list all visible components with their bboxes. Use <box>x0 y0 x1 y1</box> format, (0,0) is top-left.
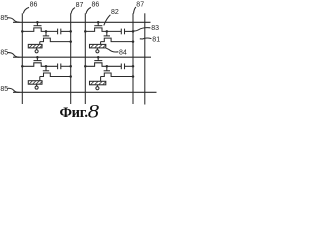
transistor T1 switching TFT (row 1, col 1) <box>22 28 57 32</box>
svg-text:87: 87 <box>76 2 84 9</box>
wire data line 2 (net 86) <box>84 13 86 104</box>
junction dot T1 gate on bus (row 1, col 1) <box>36 21 39 24</box>
junction dot capacitor to power line (row 2, col 2) <box>132 65 135 68</box>
wire gate bus 2 (net 85) <box>13 56 151 58</box>
svg-text:85: 85 <box>0 49 8 56</box>
node storage junction (row 2, col 2) <box>106 65 109 68</box>
junction dot T2 drain on power line (row 1, col 1) <box>69 40 72 43</box>
junction dot T1 gate on bus (row 1, col 2) <box>97 21 100 24</box>
transistor T2 driving TFT (row 2, col 1) <box>45 66 47 71</box>
transistor T1 switching TFT (row 2, col 1) <box>22 63 57 67</box>
svg-text:82: 82 <box>111 9 119 16</box>
transistor T2 driving TFT (row 1, col 1) <box>45 31 47 36</box>
EL element 84 (row 2, col 1) <box>28 81 42 85</box>
capacitor C storage (row 1, col 1) <box>57 29 59 35</box>
wire power line 1 (net 87) <box>70 13 72 104</box>
node storage junction (row 2, col 1) <box>45 65 48 68</box>
svg-text:87: 87 <box>136 1 144 8</box>
junction dot T2 drain on power line (row 2, col 2) <box>132 75 135 78</box>
junction dot T2 drain on power line (row 1, col 2) <box>132 40 135 43</box>
transistor T1 switching TFT (row 2, col 2) <box>85 63 121 67</box>
capacitor C storage (row 2, col 2) <box>120 64 122 70</box>
wire T2 to EL element (row 1, col 1) <box>39 42 41 45</box>
EL element 84 (row 1, col 1) <box>28 44 42 48</box>
svg-text:8: 8 <box>88 100 100 120</box>
transistor T1 switching TFT (row 1, col 2) <box>85 28 121 32</box>
junction dot T1 source on data line (row 1, col 2) <box>84 30 87 33</box>
wire power line 2 (net 87) <box>132 13 134 104</box>
wire gate bus 3 (net 85) <box>13 91 157 93</box>
transistor T2 driving TFT (row 1, col 2) <box>106 31 108 36</box>
svg-text:86: 86 <box>92 2 100 9</box>
wire common line (net 81) <box>144 13 146 104</box>
capacitor C storage (row 1, col 2) <box>120 29 122 35</box>
wire T2 to EL element (row 2, col 2) <box>100 77 102 82</box>
EL bottom electrode terminal (row 1, col 1) <box>36 48 38 50</box>
svg-text:Фиг.: Фиг. <box>60 105 88 120</box>
junction dot T1 source on data line (row 2, col 2) <box>84 65 87 68</box>
junction dot capacitor to power line (row 2, col 1) <box>69 65 72 68</box>
junction dot T1 source on data line (row 2, col 1) <box>21 65 24 68</box>
svg-text:81: 81 <box>152 36 160 43</box>
wire T2 to EL element (row 2, col 1) <box>39 77 41 81</box>
node storage junction (row 1, col 2) <box>106 30 109 33</box>
junction dot T1 gate on bus (row 2, col 2) <box>97 56 100 59</box>
transistor T2 driving TFT (row 2, col 2) <box>106 66 108 71</box>
svg-text:85: 85 <box>0 15 8 22</box>
svg-text:85: 85 <box>0 86 8 93</box>
svg-text:83: 83 <box>151 25 159 32</box>
svg-text:86: 86 <box>30 2 38 9</box>
EL bottom electrode terminal (row 2, col 1) <box>36 84 38 86</box>
EL bottom electrode terminal (row 1, col 2) <box>96 48 98 50</box>
capacitor C storage (row 2, col 1) <box>57 64 59 70</box>
junction dot capacitor to power line (row 1, col 1) <box>69 30 72 33</box>
node storage junction (row 1, col 1) <box>45 30 48 33</box>
junction dot T2 drain on power line (row 2, col 1) <box>69 75 72 78</box>
wire gate bus 1 (net 85) <box>13 21 151 23</box>
junction dot T1 source on data line (row 1, col 1) <box>21 30 24 33</box>
wire data line 1 (net 86) <box>21 13 23 104</box>
EL element 84 (row 1, col 2) <box>90 44 106 48</box>
junction dot T1 gate on bus (row 2, col 1) <box>36 56 39 59</box>
junction dot capacitor to power line (row 1, col 2) <box>132 30 135 33</box>
svg-text:84: 84 <box>119 50 127 57</box>
wire T2 to EL element (row 1, col 2) <box>100 42 102 45</box>
EL bottom electrode terminal (row 2, col 2) <box>96 85 98 87</box>
EL element 84 (row 2, col 2) <box>90 81 106 85</box>
